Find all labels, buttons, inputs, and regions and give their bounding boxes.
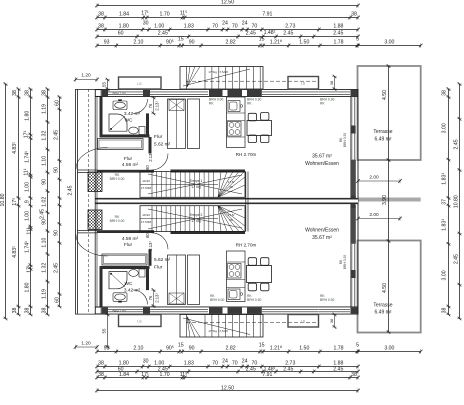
svg-text:12.50: 12.50 xyxy=(221,0,234,6)
svg-text:4.83¹: 4.83¹ xyxy=(12,246,18,258)
kitchen stove top unit xyxy=(228,122,242,137)
WC shower bottom unit xyxy=(109,272,127,289)
svg-text:1.21⁸: 1.21⁸ xyxy=(270,346,282,352)
svg-text:1.00: 1.00 xyxy=(24,211,30,221)
svg-text:Treppe 2: Treppe 2 xyxy=(190,213,203,217)
svg-text:1.20: 1.20 xyxy=(81,73,91,79)
svg-text:60: 60 xyxy=(54,100,60,106)
svg-text:55: 55 xyxy=(102,82,107,87)
terrace bottom xyxy=(358,241,421,333)
svg-text:6.49 m²: 6.49 m² xyxy=(375,137,392,143)
svg-text:9: 9 xyxy=(24,200,30,203)
svg-text:5.62 m²: 5.62 m² xyxy=(154,142,171,148)
svg-text:3.90: 3.90 xyxy=(382,195,388,205)
svg-text:7.91: 7.91 xyxy=(262,12,272,18)
svg-text:5: 5 xyxy=(356,37,359,43)
porch west wall xyxy=(75,89,77,315)
svg-text:93: 93 xyxy=(104,40,110,46)
porch inner wall xyxy=(94,89,96,315)
svg-text:5: 5 xyxy=(356,343,359,349)
svg-text:11¹: 11¹ xyxy=(23,168,29,175)
svg-text:BRH 1.80: BRH 1.80 xyxy=(112,91,125,95)
svg-text:4.59 m²: 4.59 m² xyxy=(122,236,139,242)
WC toilet top unit xyxy=(139,127,145,135)
svg-text:3.00: 3.00 xyxy=(441,123,447,133)
svg-text:Flur: Flur xyxy=(154,265,163,271)
svg-text:2.10: 2.10 xyxy=(133,346,143,352)
left dim col 2 xyxy=(18,89,20,315)
svg-text:60: 60 xyxy=(54,297,60,303)
top dimension row 4 xyxy=(97,36,358,38)
bottom dimension row B2 xyxy=(97,371,358,373)
bottom dimension row B xyxy=(97,366,358,368)
svg-text:28: 28 xyxy=(229,218,233,222)
svg-text:1.83¹: 1.83¹ xyxy=(441,173,447,185)
window bottom 1.00 xyxy=(150,308,170,310)
staircase bottom unit xyxy=(140,206,245,232)
terrace top xyxy=(358,66,421,160)
bottom dimension row A xyxy=(97,351,421,353)
svg-text:1.19: 1.19 xyxy=(41,104,47,114)
svg-text:90: 90 xyxy=(53,167,59,173)
shaft crosshatch bottom unit xyxy=(88,210,102,230)
svg-text:2.45: 2.45 xyxy=(453,139,459,149)
svg-text:1.20: 1.20 xyxy=(81,341,91,347)
closet below WC top unit xyxy=(98,139,144,150)
svg-text:1.10: 1.10 xyxy=(41,237,47,247)
svg-text:2.82: 2.82 xyxy=(226,346,236,352)
top dimension row 12.50 xyxy=(97,5,358,7)
wardrobe top unit xyxy=(168,99,186,149)
top dimension row 5 xyxy=(97,45,421,47)
window top 2.73 xyxy=(262,91,319,93)
svg-text:70: 70 xyxy=(212,24,218,30)
svg-text:30: 30 xyxy=(143,359,149,365)
dim 2.00 above party wall xyxy=(358,180,400,182)
svg-text:1.83: 1.83 xyxy=(184,361,194,367)
bottom dimension row C xyxy=(97,377,358,379)
staircase top unit xyxy=(140,172,245,198)
hall door arc top unit xyxy=(152,154,169,171)
dim 1.20 top xyxy=(76,79,98,81)
wardrobe bottom unit xyxy=(168,255,186,305)
svg-text:17.5/28: 17.5/28 xyxy=(141,220,151,224)
svg-text:3.00: 3.00 xyxy=(441,270,447,280)
svg-text:10.80: 10.80 xyxy=(453,195,459,208)
svg-text:17¹: 17¹ xyxy=(26,265,32,273)
hall wall top unit xyxy=(78,169,98,171)
window top 1.83 xyxy=(170,91,208,93)
svg-text:15: 15 xyxy=(259,37,265,43)
svg-text:11¹: 11¹ xyxy=(26,227,32,234)
flur partition wall top unit xyxy=(149,137,152,154)
svg-text:1.74¹: 1.74¹ xyxy=(24,241,30,253)
svg-text:1.83¹: 1.83¹ xyxy=(441,219,447,231)
right wall solid top unit xyxy=(351,160,356,199)
svg-text:2.45: 2.45 xyxy=(283,367,293,373)
svg-text:BRH 0.00: BRH 0.00 xyxy=(210,298,224,302)
svg-text:WC: WC xyxy=(125,118,134,124)
svg-text:15: 15 xyxy=(178,343,184,349)
kitchen counter top unit xyxy=(227,97,246,148)
svg-text:LS: LS xyxy=(137,82,142,86)
svg-text:35.67 m²: 35.67 m² xyxy=(312,235,332,241)
WC right wall bottom unit xyxy=(146,266,149,290)
WC top wall bottom unit xyxy=(100,266,150,269)
bottom dimension row 12.50 xyxy=(97,390,358,392)
svg-text:2.00: 2.00 xyxy=(369,175,379,181)
svg-text:17.5/: 17.5/ xyxy=(228,213,235,217)
svg-text:76: 76 xyxy=(148,295,153,300)
svg-text:15: 15 xyxy=(178,37,184,43)
entrance door arc bottom unit xyxy=(76,235,108,257)
right wall glazing bottom unit xyxy=(351,244,353,307)
svg-text:17.5/: 17.5/ xyxy=(228,180,235,184)
svg-text:RH 2.70m: RH 2.70m xyxy=(236,152,257,157)
svg-text:38: 38 xyxy=(330,81,334,85)
svg-text:70: 70 xyxy=(232,361,238,367)
svg-text:1.74¹: 1.74¹ xyxy=(24,151,30,163)
svg-text:80: 80 xyxy=(145,233,150,238)
stairwell east wall xyxy=(245,172,247,232)
svg-text:LS: LS xyxy=(301,320,306,324)
svg-text:1.84: 1.84 xyxy=(119,372,129,378)
svg-text:38: 38 xyxy=(351,12,357,18)
svg-text:38: 38 xyxy=(24,90,30,96)
svg-text:2.10: 2.10 xyxy=(133,40,143,46)
svg-text:2.45: 2.45 xyxy=(67,185,73,195)
svg-text:BRH 0.00: BRH 0.00 xyxy=(110,177,125,181)
svg-text:10.93: 10.93 xyxy=(142,179,150,183)
svg-text:11⁵: 11⁵ xyxy=(180,372,188,378)
svg-text:76: 76 xyxy=(148,103,153,108)
svg-text:1.32: 1.32 xyxy=(41,130,47,140)
svg-text:1.32: 1.32 xyxy=(41,263,47,273)
right wall inner face line xyxy=(350,97,352,307)
dim 55 bottom xyxy=(107,315,109,348)
dining table bottom unit xyxy=(247,266,272,283)
svg-text:2.00: 2.00 xyxy=(369,212,379,218)
svg-text:Terrasse: Terrasse xyxy=(373,303,392,309)
svg-text:2.45: 2.45 xyxy=(53,263,59,273)
WC left wall top unit xyxy=(100,97,103,138)
WC left wall bottom unit xyxy=(100,266,103,307)
closet above WC bottom unit xyxy=(102,254,147,265)
svg-text:2.13¹: 2.13¹ xyxy=(155,101,160,111)
hall wall bottom unit xyxy=(78,230,98,232)
svg-text:17 Stg: 17 Stg xyxy=(191,185,200,189)
svg-text:30: 30 xyxy=(143,21,149,27)
svg-text:2.45: 2.45 xyxy=(246,31,256,37)
svg-text:24: 24 xyxy=(222,359,228,365)
top wall corner frame xyxy=(95,90,101,96)
svg-text:11⁵: 11⁵ xyxy=(180,11,188,17)
window bottom 2.73 xyxy=(262,308,319,310)
svg-text:RK: RK xyxy=(209,101,214,105)
dim 76 door WC bottom xyxy=(153,290,155,306)
svg-text:17 Stg 17,5/28: 17 Stg 17,5/28 xyxy=(208,329,228,333)
flur partition wall bottom unit xyxy=(149,249,152,265)
window top 1.00 xyxy=(150,91,170,93)
svg-text:1.19: 1.19 xyxy=(41,289,47,299)
exterior entry stair top xyxy=(180,67,263,90)
svg-text:38: 38 xyxy=(41,308,47,314)
dining chairs top unit xyxy=(248,113,256,121)
svg-text:2.45: 2.45 xyxy=(333,367,343,373)
dim 38 canopy top xyxy=(334,77,336,90)
roof overhang dashed line xyxy=(88,89,90,315)
light well LS top-right xyxy=(288,77,319,90)
svg-text:38: 38 xyxy=(12,308,18,314)
svg-text:2.45: 2.45 xyxy=(53,130,59,140)
entrance door arc top unit xyxy=(76,148,108,170)
svg-text:70: 70 xyxy=(212,361,218,367)
dim 76 door WC top xyxy=(153,98,155,114)
exterior wall bottom outline xyxy=(95,306,358,308)
right wall glazing top unit xyxy=(351,97,353,160)
WC door arc top unit xyxy=(133,99,148,114)
WC door arc bottom unit xyxy=(133,290,148,305)
svg-text:15: 15 xyxy=(259,343,265,349)
svg-text:1.88: 1.88 xyxy=(333,24,343,30)
svg-text:17.5/28: 17.5/28 xyxy=(141,186,151,190)
svg-text:1.80: 1.80 xyxy=(24,282,30,292)
window top 1.88 xyxy=(319,91,350,93)
svg-text:38: 38 xyxy=(98,12,104,18)
svg-text:24: 24 xyxy=(242,359,248,365)
svg-text:2.13¹: 2.13¹ xyxy=(148,152,153,162)
svg-text:BRH 0.30: BRH 0.30 xyxy=(343,255,347,269)
svg-text:90⁵: 90⁵ xyxy=(166,346,174,352)
svg-text:90⁵: 90⁵ xyxy=(166,40,174,46)
svg-text:1.84: 1.84 xyxy=(119,12,129,18)
window bottom 1.83 xyxy=(170,308,208,310)
kitchen counter bottom unit xyxy=(227,251,246,302)
svg-text:38: 38 xyxy=(351,372,357,378)
svg-text:4.59 m²: 4.59 m² xyxy=(122,162,139,168)
svg-text:1.02: 1.02 xyxy=(41,197,47,207)
svg-text:Treppe 1: Treppe 1 xyxy=(190,179,203,183)
svg-text:Wohnen/Essen: Wohnen/Essen xyxy=(305,228,339,234)
svg-text:3.00: 3.00 xyxy=(384,346,394,352)
left dim col 5 xyxy=(59,97,61,307)
svg-text:2.45: 2.45 xyxy=(453,254,459,264)
svg-text:BRH 0.30: BRH 0.30 xyxy=(343,133,347,147)
svg-text:10.80: 10.80 xyxy=(0,193,6,206)
exterior wall right outer line xyxy=(357,89,359,315)
svg-text:1.80: 1.80 xyxy=(119,24,129,30)
dim 55 top xyxy=(107,80,109,90)
left dim col 3 xyxy=(30,89,32,315)
svg-text:35.67 m²: 35.67 m² xyxy=(312,154,332,160)
svg-text:17¹: 17¹ xyxy=(23,130,29,138)
svg-text:3.42 m²: 3.42 m² xyxy=(124,111,141,117)
top dimension row 2 xyxy=(97,17,358,19)
hall door arc bottom unit xyxy=(152,233,169,250)
svg-text:90: 90 xyxy=(53,230,59,236)
svg-text:3.00: 3.00 xyxy=(384,40,394,46)
svg-text:38: 38 xyxy=(24,308,30,314)
svg-text:38: 38 xyxy=(441,308,447,314)
canopy dashed line bottom xyxy=(186,321,318,323)
svg-text:60: 60 xyxy=(118,31,124,37)
light well LS top-left xyxy=(119,77,162,89)
kitchen sink top unit xyxy=(228,101,240,112)
svg-text:6.49 m²: 6.49 m² xyxy=(375,310,392,316)
svg-text:55: 55 xyxy=(102,328,107,333)
bottom wall corner frame xyxy=(95,307,101,313)
WC sink top unit xyxy=(113,101,127,110)
svg-text:24: 24 xyxy=(242,21,248,27)
svg-text:80: 80 xyxy=(145,165,150,170)
svg-text:2.13¹: 2.13¹ xyxy=(148,241,153,251)
svg-text:3.42 m²: 3.42 m² xyxy=(124,288,141,294)
dining chairs bottom unit xyxy=(248,258,256,266)
exterior entry stair bottom xyxy=(180,315,263,338)
svg-text:BRH 0.30: BRH 0.30 xyxy=(247,298,261,302)
left dim col 4 xyxy=(47,89,49,315)
svg-text:24: 24 xyxy=(222,21,228,27)
svg-text:Wohnen/Essen: Wohnen/Essen xyxy=(305,161,339,167)
svg-text:1.48¹: 1.48¹ xyxy=(264,30,276,36)
dim 38 canopy bottom xyxy=(334,315,336,328)
top wall piers xyxy=(102,90,109,96)
svg-text:90: 90 xyxy=(189,40,195,46)
svg-text:BRH 1.80: BRH 1.80 xyxy=(112,309,125,313)
svg-text:WC: WC xyxy=(125,281,134,287)
svg-text:2.45: 2.45 xyxy=(158,31,168,37)
svg-text:1.70: 1.70 xyxy=(160,12,170,18)
shaft crosshatch top unit xyxy=(88,172,102,192)
svg-text:38: 38 xyxy=(41,90,47,96)
right wall mullion top xyxy=(351,126,356,134)
svg-text:37: 37 xyxy=(441,199,447,205)
window top 1.80 xyxy=(108,91,143,93)
svg-text:38: 38 xyxy=(330,319,334,323)
svg-text:Flur: Flur xyxy=(124,242,133,248)
svg-text:17¹: 17¹ xyxy=(141,11,149,17)
svg-text:LS: LS xyxy=(137,320,142,324)
svg-text:10.93: 10.93 xyxy=(142,213,150,217)
right dim col 1 xyxy=(448,89,450,314)
right wall party block xyxy=(351,196,356,209)
porch top edge xyxy=(76,88,96,90)
svg-text:1.80: 1.80 xyxy=(24,111,30,121)
svg-text:1.50: 1.50 xyxy=(299,346,309,352)
WC toilet bottom unit xyxy=(139,269,145,277)
svg-text:2.45: 2.45 xyxy=(333,31,343,37)
svg-text:38: 38 xyxy=(98,24,104,30)
svg-text:38: 38 xyxy=(98,361,104,367)
svg-text:2.13¹: 2.13¹ xyxy=(155,293,160,303)
svg-text:12.50: 12.50 xyxy=(221,385,234,391)
porch bottom edge xyxy=(76,313,96,315)
svg-text:17¹: 17¹ xyxy=(141,372,149,378)
svg-text:2.82: 2.82 xyxy=(226,40,236,46)
svg-text:2.45: 2.45 xyxy=(283,31,293,37)
svg-text:1.70: 1.70 xyxy=(160,372,170,378)
svg-text:Flur: Flur xyxy=(154,134,163,140)
svg-text:1.21⁸: 1.21⁸ xyxy=(270,40,282,46)
svg-text:90: 90 xyxy=(189,346,195,352)
svg-text:RH 2.70m: RH 2.70m xyxy=(236,243,257,248)
svg-text:LS: LS xyxy=(301,82,306,86)
svg-text:90: 90 xyxy=(41,179,47,185)
svg-text:70: 70 xyxy=(252,24,258,30)
svg-text:1.00: 1.00 xyxy=(24,182,30,192)
WC sink bottom unit xyxy=(113,293,127,302)
svg-text:38: 38 xyxy=(98,372,104,378)
svg-text:4.83¹: 4.83¹ xyxy=(12,142,18,154)
svg-text:1.50: 1.50 xyxy=(299,40,309,46)
window bottom 1.80 xyxy=(108,308,143,310)
svg-text:17 Stg 17,5/28: 17 Stg 17,5/28 xyxy=(208,70,228,74)
svg-text:17⁵: 17⁵ xyxy=(12,198,18,206)
dining table top unit xyxy=(247,121,272,136)
window bottom 1.88 xyxy=(319,308,350,310)
svg-text:1.78: 1.78 xyxy=(333,40,343,46)
svg-text:4.50: 4.50 xyxy=(382,90,388,100)
WC bottom wall top unit xyxy=(100,135,150,138)
light well LS bottom-right xyxy=(288,315,319,328)
left overall dim 10.80 xyxy=(5,84,7,319)
svg-text:1.00: 1.00 xyxy=(154,24,164,30)
exterior wall top outline xyxy=(95,88,358,90)
svg-text:2.45: 2.45 xyxy=(39,209,45,219)
WC right wall top unit xyxy=(146,113,149,137)
svg-text:2.45: 2.45 xyxy=(246,367,256,373)
terrace vertical dim 4.50/3.90/4.50 xyxy=(388,66,390,332)
svg-text:4.50: 4.50 xyxy=(382,283,388,293)
svg-text:Terrasse: Terrasse xyxy=(373,129,392,135)
dim 1.20 bottom xyxy=(76,346,98,348)
svg-text:BRH 0.00: BRH 0.00 xyxy=(110,219,125,223)
svg-text:RK: RK xyxy=(320,101,325,105)
svg-text:2.73: 2.73 xyxy=(285,24,295,30)
right wall solid bottom unit xyxy=(351,205,356,244)
right dim col 2 xyxy=(459,84,461,319)
svg-text:BRH 0.30: BRH 0.30 xyxy=(320,298,334,302)
canopy dashed line top xyxy=(186,80,318,82)
svg-text:5.62 m²: 5.62 m² xyxy=(154,257,171,263)
svg-text:70: 70 xyxy=(232,24,238,30)
bottom wall piers xyxy=(102,307,109,313)
WC shower top unit xyxy=(109,114,127,131)
svg-text:RK: RK xyxy=(247,101,252,105)
dim 2.00 below party wall xyxy=(358,218,400,220)
svg-text:1.10: 1.10 xyxy=(41,156,47,166)
svg-text:1.78: 1.78 xyxy=(333,346,343,352)
kitchen stove bottom unit xyxy=(228,264,242,279)
party wall xyxy=(95,198,358,203)
svg-text:1.83: 1.83 xyxy=(184,24,194,30)
svg-text:17 Stg: 17 Stg xyxy=(191,219,200,223)
top dimension row 3 xyxy=(97,29,358,31)
svg-text:38: 38 xyxy=(441,90,447,96)
kitchen sink bottom unit xyxy=(228,289,240,300)
party wall projection between terraces xyxy=(358,198,421,202)
svg-text:28: 28 xyxy=(229,185,233,189)
svg-text:7.91: 7.91 xyxy=(262,372,272,378)
svg-text:Flur: Flur xyxy=(124,156,133,162)
right wall mullion bottom xyxy=(351,270,356,278)
light well LS bottom-left xyxy=(119,315,162,327)
svg-text:38: 38 xyxy=(12,90,18,96)
